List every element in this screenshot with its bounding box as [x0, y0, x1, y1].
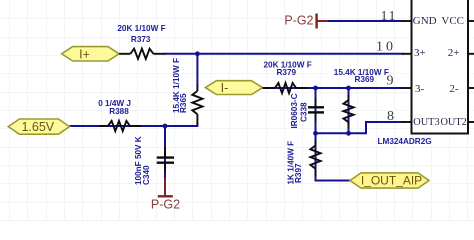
pin name 2+ [448, 47, 460, 59]
pin 7 stub (OUT2, right) [468, 121, 474, 123]
pin 11 stub (GND) [402, 20, 412, 22]
value label 20K 1/10W F (R373) [117, 24, 165, 33]
wire net 1.65V (port to R365 bottom, with corner) [70, 123, 198, 126]
svg-text:8: 8 [387, 109, 394, 124]
pin name 2- [449, 83, 459, 95]
wire net I- (port to op-amp pin 9) [263, 87, 404, 89]
wire R365 top lead segment [196, 54, 198, 86]
junction node I-/R369 [346, 86, 351, 91]
svg-text:I-: I- [221, 81, 229, 95]
port 1.65V [8, 119, 69, 134]
junction node OUT3/R369 [346, 131, 351, 136]
wire net I+ (R373 to op-amp pin 10) [164, 53, 404, 55]
wire R369 branch vertical [348, 88, 350, 133]
svg-text:10: 10 [376, 40, 396, 55]
svg-text:2+: 2+ [448, 47, 460, 59]
svg-text:20K 1/10W F: 20K 1/10W F [117, 24, 165, 33]
designator R365 (rotated) [179, 93, 188, 113]
svg-text:3+: 3+ [414, 47, 426, 59]
wire net OUT3 (C338/R369 bottom to op-amp pin 8) [316, 122, 404, 133]
comment label LM324ADR2G [378, 137, 432, 146]
svg-text:R397: R397 [294, 163, 303, 183]
op-amp U? LM324 part box [412, 0, 469, 134]
svg-text:C338: C338 [300, 102, 309, 122]
svg-text:LM324ADR2G: LM324ADR2G [378, 137, 432, 146]
power port P-G2 (bottom, under C340) [151, 178, 180, 212]
capacitor C340 [157, 148, 174, 171]
wire C338 branch vertical [315, 88, 317, 133]
value label 20K 1/10W F (R379) [263, 61, 311, 70]
designator C340 (rotated) [142, 165, 151, 185]
value label 15.4K 1/10W F (R369) [334, 68, 389, 77]
junction node OUT3/C338-R397 [313, 131, 318, 136]
svg-text:R365: R365 [179, 93, 188, 113]
designator C338 (rotated) [300, 102, 309, 122]
wire C340 branch vertical [164, 126, 166, 180]
wire R397 to I_OUT_AIP port [316, 133, 351, 180]
svg-text:R369: R369 [355, 75, 375, 84]
svg-text:I_OUT_AIP: I_OUT_AIP [361, 173, 422, 187]
pin name OUT3 [413, 117, 439, 128]
svg-text:GND: GND [413, 15, 437, 27]
pin name OUT2 [440, 117, 466, 128]
svg-text:9: 9 [387, 74, 394, 89]
svg-text:R373: R373 [131, 35, 151, 44]
svg-text:R388: R388 [109, 107, 129, 116]
pin 6 stub (2-, right) [468, 87, 474, 89]
svg-text:2-: 2- [449, 83, 459, 95]
designator R379 [277, 68, 297, 77]
designator R373 [131, 35, 151, 44]
designator R397 (rotated) [294, 163, 303, 183]
pin number 10 [376, 40, 396, 55]
pin name 3- [415, 83, 425, 95]
pin number 9 [387, 74, 394, 89]
pin 4 stub (VCC, right) [468, 20, 474, 22]
pin number 8 [387, 109, 394, 124]
power port P-G2 (top) [284, 13, 328, 28]
pin name VCC [441, 15, 464, 27]
svg-text:C340: C340 [142, 165, 151, 185]
designator R388 [109, 107, 129, 116]
svg-text:11: 11 [381, 9, 397, 24]
pin 5 stub (2+, right) [468, 53, 474, 55]
svg-text:R379: R379 [277, 68, 297, 77]
value label 15.4K 1/10W F (R365, rotated) [172, 58, 181, 113]
svg-text:I+: I+ [79, 48, 90, 62]
svg-text:P-G2: P-G2 [151, 198, 180, 212]
value label 100nF 50V K (C340, rotated) [134, 136, 143, 185]
capacitor C338 [308, 98, 324, 121]
port I+ [62, 47, 119, 62]
pin 9 stub (3-) [402, 87, 412, 89]
svg-text:P-G2: P-G2 [284, 13, 313, 27]
junction node 1.65V/C340 [163, 124, 168, 129]
pin 10 stub (3+) [402, 53, 412, 55]
svg-text:IR0603-C: IR0603-C [290, 93, 299, 128]
resistor R369 (vertical) [343, 95, 353, 128]
svg-text:OUT2: OUT2 [440, 117, 466, 128]
pin number 11 [381, 9, 397, 24]
pin 8 stub (OUT3) [402, 121, 412, 123]
svg-text:1.65V: 1.65V [21, 120, 54, 134]
resistor R388 [99, 121, 141, 131]
value label 1K 1/40W F (R397, rotated) [287, 141, 296, 185]
pin name GND [413, 15, 437, 27]
resistor R373 [119, 49, 165, 59]
pin name 3+ [414, 47, 426, 59]
value label 0 1/4W J (R388) [98, 99, 131, 108]
junction node I-/C338 [313, 86, 318, 91]
port I- [205, 81, 262, 95]
svg-text:OUT3: OUT3 [413, 117, 439, 128]
port I_OUT_AIP [350, 173, 429, 188]
junction node I+/R365 [195, 51, 200, 56]
resistor R397 (vertical) [310, 140, 320, 176]
value label IR0603-C (C338, rotated) [290, 93, 299, 128]
wire net P-G2 top (to op-amp pin 11) [327, 20, 404, 22]
resistor R365 (vertical) [192, 85, 202, 125]
svg-text:3-: 3- [415, 83, 425, 95]
designator R369 [355, 75, 375, 84]
svg-text:VCC: VCC [441, 15, 464, 27]
resistor R379 [263, 83, 308, 93]
